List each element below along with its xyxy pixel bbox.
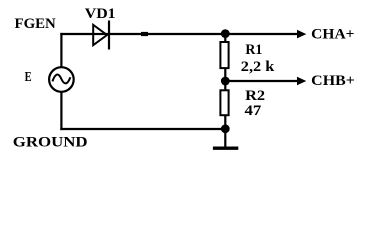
wire arrow line CHA+ <box>225 30 306 39</box>
wire top horizontal from FGEN corner to diode <box>60 33 93 35</box>
label VD1 <box>85 6 116 22</box>
junction dash on wire <box>141 32 148 36</box>
wire left vertical lower (source bottom to GROUND corner) <box>60 92 62 130</box>
svg-text:E: E <box>25 70 32 85</box>
wire bottom horizontal (GROUND rail) <box>60 128 225 130</box>
node CHA+ label <box>311 27 354 43</box>
node FGEN label <box>15 16 56 32</box>
voltage source E <box>49 67 74 92</box>
wire node C to ground symbol <box>224 129 226 148</box>
ground <box>213 146 238 149</box>
svg-text:2,2 k: 2,2 k <box>241 59 275 75</box>
wire left vertical upper (FGEN corner to source top) <box>60 33 62 68</box>
svg-text:R2: R2 <box>245 88 265 104</box>
node B junction dot <box>221 77 230 86</box>
resistor R1 <box>220 42 228 68</box>
svg-text:R1: R1 <box>245 42 262 58</box>
svg-text:FGEN: FGEN <box>15 16 56 32</box>
resistor R2 <box>220 90 228 115</box>
svg-text:CHA+: CHA+ <box>311 27 354 43</box>
wire arrow line CHB+ <box>225 77 306 86</box>
node GROUND label <box>13 135 88 151</box>
wire from diode cathode to node A <box>109 33 225 35</box>
wire node A to R1 <box>224 34 226 42</box>
node C junction dot <box>221 124 230 133</box>
value 47 <box>245 103 262 119</box>
label R2 <box>245 88 265 104</box>
value 2,2 k <box>241 59 275 75</box>
svg-text:VD1: VD1 <box>85 6 116 22</box>
diode VD1 <box>93 21 109 50</box>
label R1 <box>245 42 262 58</box>
svg-text:47: 47 <box>245 103 262 119</box>
svg-text:CHB+: CHB+ <box>311 73 355 89</box>
label E <box>25 70 32 85</box>
svg-text:GROUND: GROUND <box>13 135 88 151</box>
wire R1 to node B <box>224 68 226 90</box>
node CHB+ label <box>311 73 355 89</box>
node A junction dot <box>221 29 230 38</box>
wire R2 to node C <box>224 115 226 129</box>
